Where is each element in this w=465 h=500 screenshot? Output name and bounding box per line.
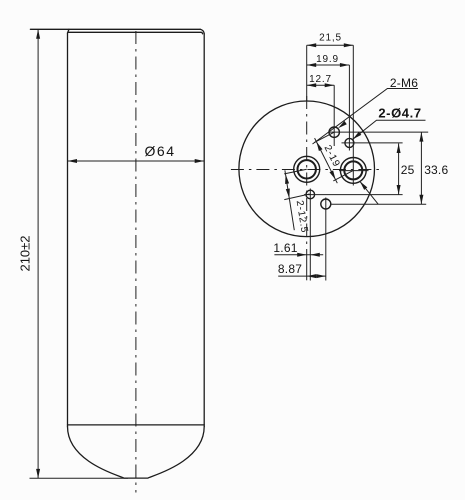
dimension line 21,5 — [307, 44, 354, 46]
arrow 25 top — [397, 144, 401, 154]
arrow 1.61 left — [297, 253, 307, 257]
vertical centerline of circle — [306, 96, 308, 258]
extension line 2-19 upper — [314, 132, 334, 142]
arrow 8.87 right — [316, 274, 326, 278]
arrow 19.9 left — [307, 63, 317, 67]
top phi4.7 hole — [345, 138, 354, 147]
top view body circle — [239, 101, 375, 237]
svg-text:21,5: 21,5 — [319, 32, 342, 43]
cylinder bottom dome — [68, 427, 205, 479]
arrow 1.61 right — [310, 253, 320, 257]
arrow 21,5 left — [307, 43, 317, 47]
center fitting hole inner — [298, 160, 316, 178]
arrow right hole leader — [360, 181, 368, 190]
svg-text:19.9: 19.9 — [316, 54, 339, 65]
extension line 25 top — [342, 142, 403, 144]
extension line center vertical top — [306, 45, 308, 101]
extension line bottom phi4.7 hole vertical — [309, 189, 311, 281]
svg-text:2-Ø4.7: 2-Ø4.7 — [378, 106, 421, 121]
cylinder vertical centerline — [135, 31, 137, 493]
leader line at right fitting hole — [360, 181, 378, 204]
dimension line 210 vertical — [37, 29, 39, 478]
cylinder right wall — [203, 34, 205, 427]
bottom M6 hole — [321, 199, 331, 209]
cylinder top face line with left extension — [30, 28, 200, 30]
extension line bottom M6 hole vertical — [325, 198, 327, 281]
arrow 2-12.5 lower — [286, 189, 290, 199]
dimension line 33.6 — [420, 132, 422, 204]
horizontal centerline of circle — [231, 169, 383, 171]
arrow 2-19 lower — [330, 170, 336, 179]
arrow 2-19 upper — [316, 142, 322, 151]
arrow phi64 right — [195, 159, 205, 163]
bottom phi4.7 hole — [306, 190, 315, 199]
extension line top phi4.7 hole vertical — [348, 65, 350, 151]
extension line 33.6 top — [329, 131, 429, 133]
arrow 33.6 top — [419, 132, 423, 142]
svg-text:12.7: 12.7 — [309, 74, 332, 85]
cylinder bottom seam line — [68, 424, 205, 426]
arrow 2-phi4.7 at hole — [353, 132, 362, 140]
extension line top M6 hole vertical — [333, 85, 335, 146]
leader line 2-M6 — [313, 89, 419, 145]
dimension line 1.61 — [274, 254, 323, 256]
arrow phi64 left — [68, 159, 78, 163]
right fitting hole inner — [344, 161, 362, 179]
cylinder top lip second line — [68, 32, 202, 34]
svg-text:25: 25 — [401, 163, 415, 177]
arrow 210 bottom — [36, 469, 40, 479]
svg-text:2-12.5: 2-12.5 — [294, 200, 310, 234]
arrow 19.9 right — [340, 63, 350, 67]
svg-text:Ø64: Ø64 — [145, 143, 176, 159]
dimension line 12.7 — [307, 84, 335, 86]
extension line 25 bottom — [304, 194, 403, 196]
cylinder left wall — [67, 33, 69, 427]
extension line right fitting hole vertical — [352, 45, 354, 185]
extension line center vertical bottom — [306, 258, 308, 280]
right fitting hole outer — [340, 158, 366, 184]
top M6 hole — [329, 127, 339, 137]
extension line 33.6 bottom — [332, 203, 427, 205]
arrow 210 top — [36, 29, 40, 39]
arrow 33.6 bottom — [419, 195, 423, 205]
cylinder top-right rounded corner — [200, 29, 204, 34]
dimension line 2-19 — [315, 138, 338, 183]
dimension line 2-12.5 — [285, 170, 294, 230]
dimension line 25 — [398, 144, 400, 195]
svg-text:2-19: 2-19 — [322, 144, 342, 170]
center fitting hole outer — [294, 156, 320, 182]
arrow 12.7 left — [307, 83, 317, 87]
svg-text:210±2: 210±2 — [18, 235, 33, 271]
arrow 25 bottom — [397, 185, 401, 195]
extension line 2-19 lower — [333, 170, 353, 181]
arrow 21,5 right — [344, 43, 354, 47]
svg-text:8.87: 8.87 — [278, 262, 302, 276]
arrow 12.7 right — [325, 83, 335, 87]
svg-text:33.6: 33.6 — [424, 163, 448, 177]
leader line 2-phi4.7 — [353, 120, 426, 139]
extension line 2-12.5 upper — [284, 169, 307, 174]
svg-text:2-M6: 2-M6 — [390, 76, 418, 90]
arrow 2-M6 at hole — [338, 121, 347, 128]
extension line 2-12.5 lower — [284, 194, 309, 200]
svg-text:1.61: 1.61 — [273, 241, 297, 255]
arrow 2-12.5 upper — [285, 174, 289, 184]
dimension line 8.87 — [278, 275, 326, 277]
dimension line phi64 — [68, 160, 205, 162]
dimension line 19.9 — [307, 64, 350, 66]
right fitting hole horizontal mark — [339, 170, 369, 172]
arrow 8.87 left — [307, 274, 317, 278]
extension line bottom of cylinder — [30, 477, 129, 479]
cylinder top-left chamfer corner — [68, 29, 70, 33]
